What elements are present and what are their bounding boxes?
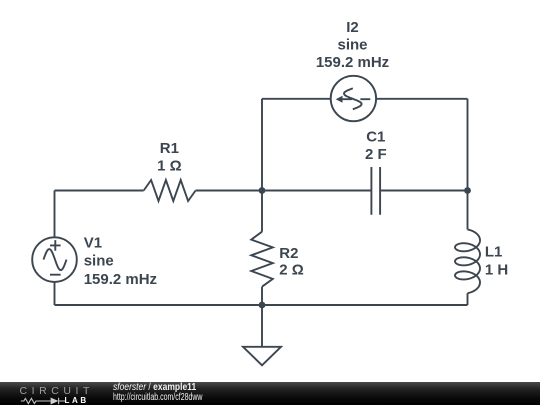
svg-text:159.2 mHz: 159.2 mHz — [84, 271, 157, 288]
svg-text:R2: R2 — [279, 245, 298, 262]
svg-text:2 Ω: 2 Ω — [279, 262, 304, 279]
svg-text:1 Ω: 1 Ω — [157, 158, 182, 175]
svg-text:2 F: 2 F — [365, 146, 387, 163]
svg-text:sine: sine — [337, 36, 367, 53]
svg-text:I2: I2 — [346, 19, 359, 36]
svg-text:1 H: 1 H — [485, 261, 508, 278]
svg-text:sine: sine — [84, 253, 114, 270]
svg-text:159.2 mHz: 159.2 mHz — [316, 54, 389, 71]
svg-text:R1: R1 — [160, 140, 179, 157]
svg-text:L1: L1 — [485, 244, 503, 261]
svg-text:C1: C1 — [366, 129, 385, 146]
svg-text:V1: V1 — [84, 235, 102, 252]
